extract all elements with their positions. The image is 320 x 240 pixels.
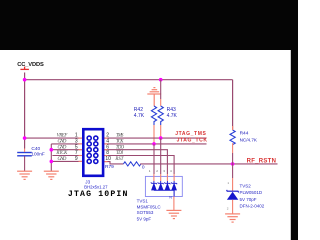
lead TVS2 top [232, 164, 234, 178]
wire JTAG_TMS net [104, 137, 207, 139]
TVS1 pin numbers [149, 169, 172, 173]
svg-text:SOT553: SOT553 [137, 210, 154, 215]
junction dot R43 top on rail [159, 78, 163, 82]
svg-text:GND: GND [58, 145, 67, 150]
svg-text:DFN-2-0402: DFN-2-0402 [240, 203, 265, 208]
svg-text:5V 70pF: 5V 70pF [240, 197, 257, 202]
capacitor C40 [17, 153, 32, 156]
label TVS2 [240, 184, 265, 209]
lead TVS1 to ground [173, 196, 175, 210]
lead R44 bottom [232, 143, 234, 153]
svg-text:JTAG 10PIN: JTAG 10PIN [68, 190, 129, 199]
svg-text:2: 2 [227, 207, 229, 211]
junction dot VREF tap [23, 136, 27, 140]
ground below C40 [17, 171, 32, 179]
svg-text:BH2x5x1.27: BH2x5x1.27 [84, 184, 108, 189]
wire right vertical rail to R44 [232, 80, 234, 130]
resistor R79 [123, 162, 140, 166]
svg-text:GND: GND [58, 140, 67, 145]
wire RTCK pin7 row [52, 155, 82, 157]
label TVS1 [137, 199, 162, 222]
svg-text:9: 9 [75, 156, 78, 162]
junction dot bus pin9 [50, 160, 54, 164]
svg-text:MSMF05LC: MSMF05LC [137, 204, 162, 209]
svg-text:RTCK: RTCK [55, 151, 68, 156]
junction dot TCK/R42 [152, 142, 156, 146]
svg-text:TDI: TDI [116, 151, 123, 156]
wire R42 bottom to JTAG_TCK [153, 125, 155, 144]
svg-text:TVS1: TVS1 [137, 199, 149, 204]
wire CC_VDDS left vertical rail [24, 73, 26, 149]
svg-text:TVS2: TVS2 [240, 184, 252, 189]
junction dot TMS/R43 [159, 136, 163, 140]
svg-text:RST: RST [114, 157, 123, 162]
junction dot RF_RSTN [231, 162, 235, 166]
svg-text:NC/4.7K: NC/4.7K [240, 137, 258, 142]
resistor R44 [230, 130, 235, 145]
TVS1 diodes [151, 174, 177, 196]
wire R43 bottom to JTAG_TMS [160, 125, 162, 138]
TVS1 box [145, 176, 182, 196]
pin numbers left 1,3,5,7,9 [75, 133, 78, 162]
diode TVS2 [227, 190, 239, 200]
ground below GND bus [44, 171, 59, 179]
svg-text:1: 1 [227, 181, 229, 185]
svg-text:PLW0501D: PLW0501D [240, 190, 263, 195]
svg-text:GND: GND [58, 157, 67, 162]
TVS1 common anode rail [154, 190, 174, 196]
wire JTAG_TCK net [104, 143, 207, 145]
svg-text:10: 10 [105, 156, 111, 162]
svg-text:4.7K: 4.7K [134, 113, 145, 119]
power symbol CC_VDDS [20, 67, 29, 70]
junction dot bus pin5 [50, 148, 54, 152]
wire TDI net down to TVS1 [104, 156, 174, 175]
svg-text:100nF: 100nF [31, 152, 44, 157]
svg-text:JTAG_TCK: JTAG_TCK [177, 138, 208, 144]
pin names left [55, 134, 68, 162]
connector J3 pin leads [79, 138, 108, 162]
wire RST net with jog [104, 162, 123, 164]
svg-text:TMS: TMS [116, 134, 124, 139]
wire GND pin5 row [51, 149, 82, 151]
svg-text:RF_RSTN: RF_RSTN [247, 159, 277, 165]
top black viewport bar [0, 0, 298, 50]
svg-text:CC_VDDS: CC_VDDS [17, 62, 44, 68]
svg-text:R44: R44 [240, 131, 249, 137]
svg-text:JTAG_TMS: JTAG_TMS [175, 131, 206, 137]
wire RST to RF_RSTN rail [140, 163, 232, 165]
wire GND pin3 row [51, 143, 82, 145]
right black viewport strip [291, 0, 298, 240]
svg-text:0: 0 [142, 164, 145, 170]
svg-text:5V 9pF: 5V 9pF [137, 217, 152, 222]
svg-text:4.7K: 4.7K [167, 113, 178, 119]
wire TDO net down to TVS1 [104, 150, 167, 174]
svg-text:TCK: TCK [116, 140, 124, 145]
wire TCK down to TVS1 [153, 144, 155, 174]
junction dot at VDDS corner [23, 78, 27, 82]
connector J3 pin pads [87, 136, 98, 163]
svg-text:TDO: TDO [116, 145, 125, 150]
pin numbers right 2,4,6,8,10 [105, 133, 111, 163]
svg-text:R79: R79 [105, 164, 114, 170]
connector J3 body [83, 129, 103, 176]
ground below TVS1 [166, 210, 181, 218]
svg-text:8: 8 [106, 150, 109, 156]
svg-text:N: N [169, 196, 172, 200]
ground below TVS2 [225, 214, 240, 222]
lead TVS2 bottom [232, 200, 234, 214]
wire GND pin9 row [51, 160, 82, 162]
wire VREF row to J3 [25, 137, 83, 139]
resistor R42 [151, 106, 156, 125]
lead R43 top [160, 80, 162, 99]
wire TMS down to TVS1 [160, 138, 162, 174]
wire top horizontal VDDS rail [25, 79, 233, 81]
wire RF_RSTN stub [233, 163, 278, 165]
lead R44 top [232, 126, 234, 130]
resistor R43 [158, 106, 163, 125]
svg-text:VREF: VREF [57, 134, 68, 139]
pin names right [114, 134, 124, 163]
wire GND bus [50, 144, 52, 171]
ground (flipped) above R42 [147, 88, 161, 106]
